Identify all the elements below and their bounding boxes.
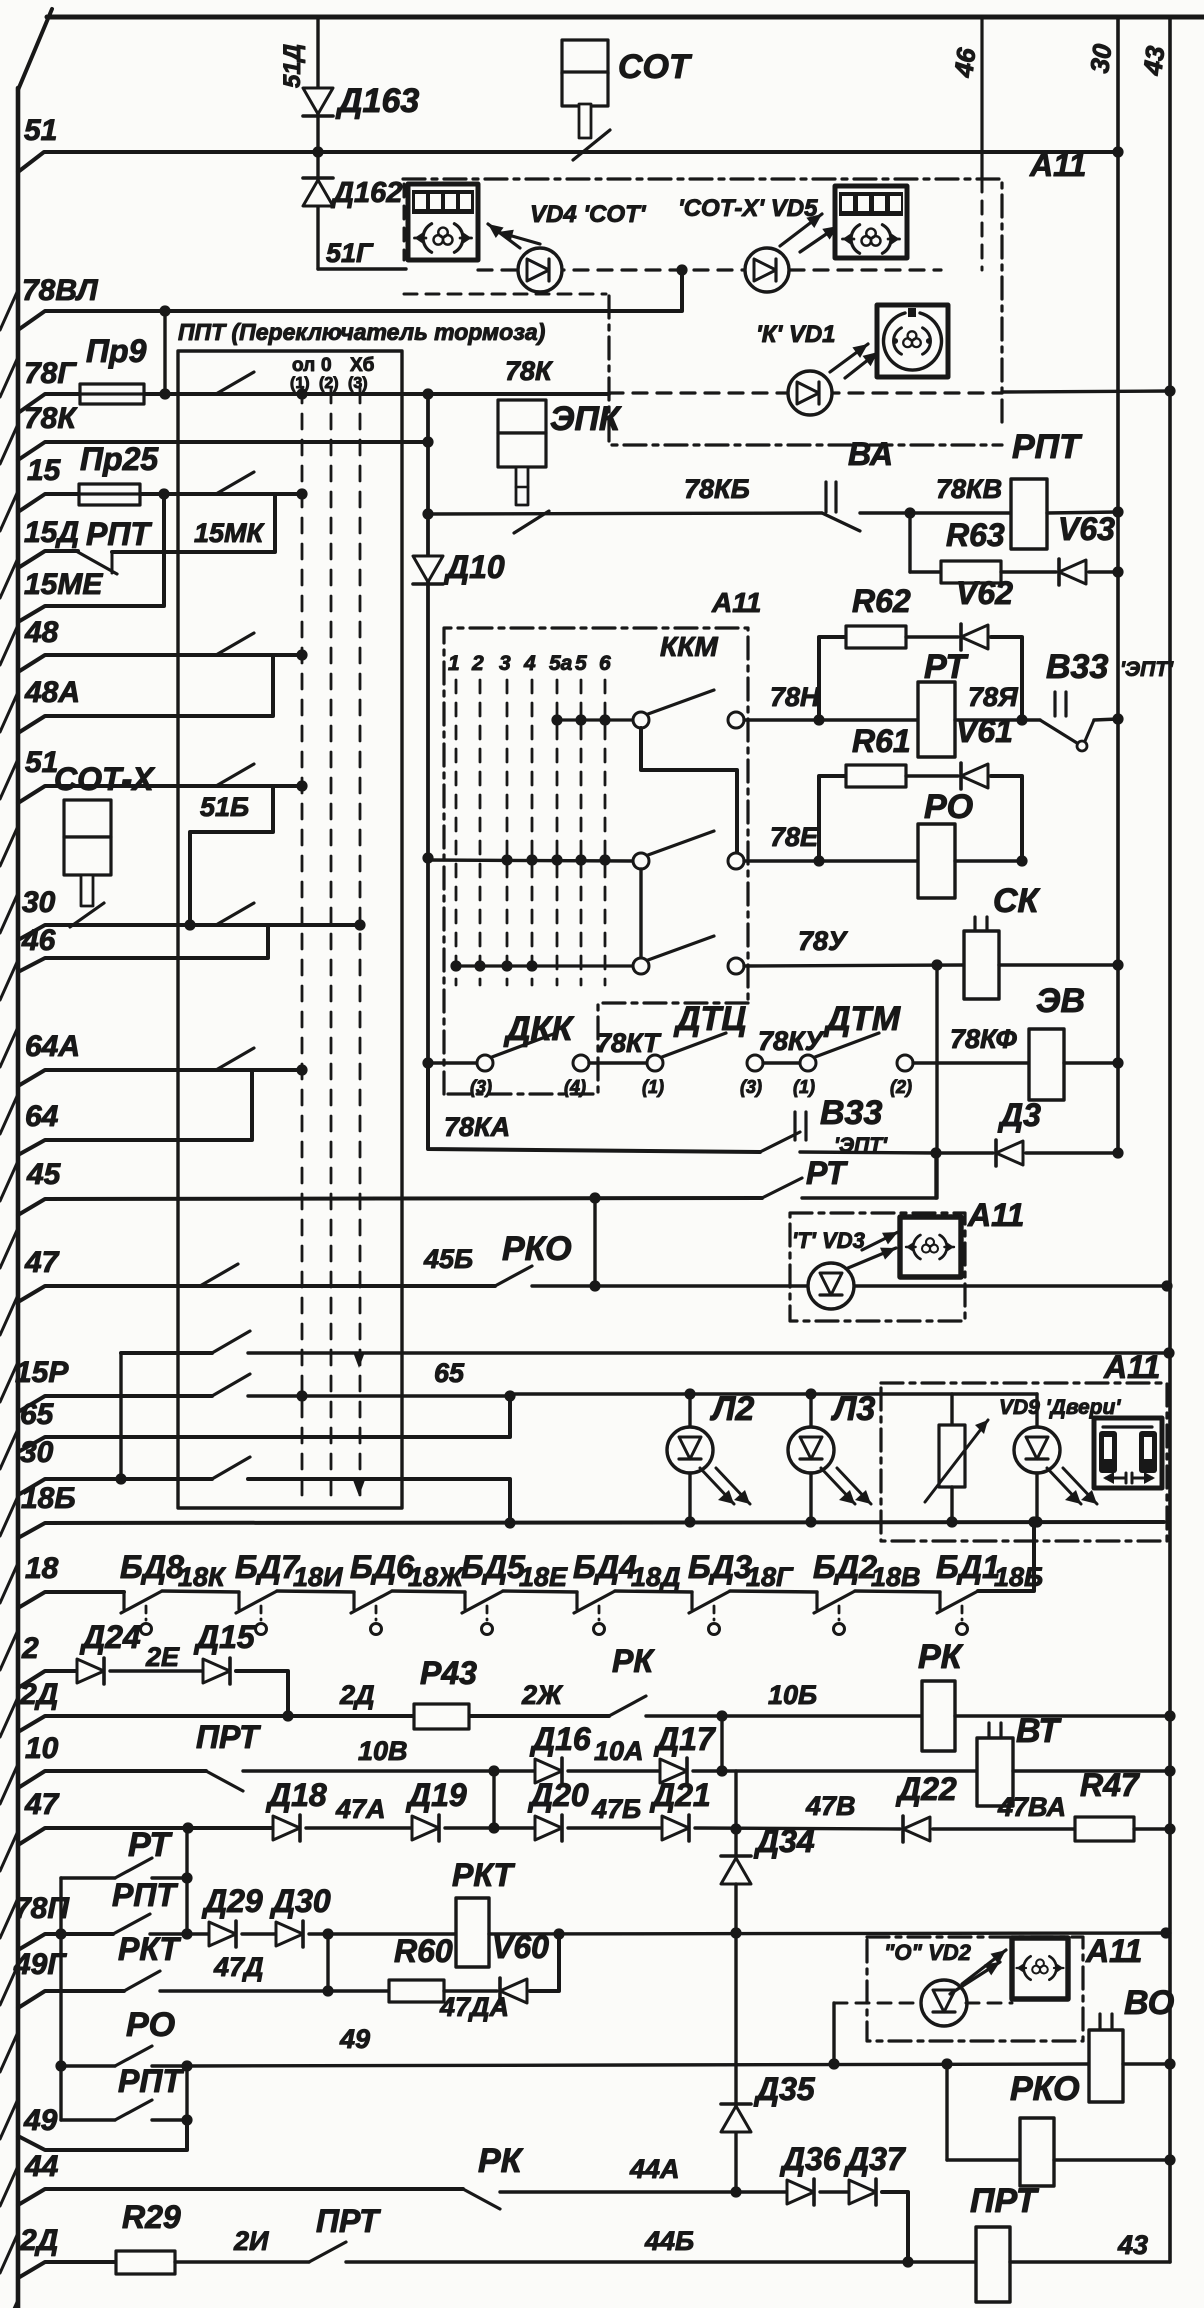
svg-text:Д21: Д21 <box>649 1777 711 1813</box>
svg-text:РПТ: РПТ <box>1012 428 1083 466</box>
door contact БД1 <box>938 1592 941 1609</box>
wire 49G <box>18 1991 124 2008</box>
relay coil EV <box>1029 1029 1064 1100</box>
svg-text:46: 46 <box>948 46 981 80</box>
svg-text:1: 1 <box>448 652 460 675</box>
svg-text:6: 6 <box>599 652 611 675</box>
bus 43 vertical <box>1168 17 1172 2262</box>
svg-text:46: 46 <box>21 924 56 957</box>
svg-text:10А: 10А <box>594 1736 644 1766</box>
contact DTM <box>800 1055 816 1071</box>
svg-text:ППТ (Переключатель тормоза): ППТ (Переключатель тормоза) <box>178 319 545 345</box>
svg-text:78ВЛ: 78ВЛ <box>22 274 99 307</box>
PPT contact 15 <box>216 472 254 494</box>
PPT contact 51 <box>216 764 254 786</box>
wire 78G / 78K lamp row <box>18 394 609 413</box>
svg-text:(1): (1) <box>290 375 310 392</box>
diode D18 <box>273 1816 300 1840</box>
svg-text:(3): (3) <box>740 1077 762 1097</box>
relay coil RO <box>918 824 955 898</box>
svg-text:Д37: Д37 <box>843 2141 907 2177</box>
svg-text:78К: 78К <box>505 356 554 386</box>
door contact БД8 <box>122 1592 125 1609</box>
wire row 15R-upper <box>121 1351 212 1355</box>
svg-text:15: 15 <box>27 454 62 487</box>
svg-text:47: 47 <box>24 1246 60 1279</box>
svg-text:(4): (4) <box>564 1077 586 1097</box>
svg-text:2Д: 2Д <box>19 1678 58 1711</box>
wire 15 <box>18 494 302 512</box>
svg-text:Д34: Д34 <box>753 1823 815 1859</box>
svg-text:'ЭПТ': 'ЭПТ' <box>1120 658 1174 681</box>
svg-text:47ВА: 47ВА <box>997 1792 1066 1822</box>
resistor R43 <box>414 1704 469 1729</box>
diode D162 <box>316 152 319 269</box>
PPT contact 48 <box>216 633 254 655</box>
column arrows <box>353 1352 365 1368</box>
wire 2 <box>18 1671 77 1688</box>
svg-text:Д15: Д15 <box>193 1619 256 1655</box>
svg-text:R62: R62 <box>852 583 911 619</box>
PPT command columns <box>301 388 304 1500</box>
wire 65 lamps rail <box>510 1392 1037 1395</box>
switch V33 EPT second <box>793 1112 796 1140</box>
svg-text:2Д: 2Д <box>19 2224 58 2257</box>
svg-text:44А: 44А <box>629 2154 680 2184</box>
wire 78U row feed <box>456 964 633 967</box>
svg-text:64: 64 <box>25 1100 59 1133</box>
lamp VD5 <box>745 248 789 292</box>
indicator box VD2 <box>1012 1938 1068 1999</box>
diode D20 <box>535 1816 562 1840</box>
svg-text:49Г: 49Г <box>13 1948 67 1981</box>
resistor R63 branch <box>908 513 911 572</box>
svg-text:R60: R60 <box>394 1933 453 1969</box>
wire 78VL <box>18 272 682 330</box>
PPT contact 15R <box>212 1374 250 1396</box>
wire 15D / RPT contact <box>18 551 78 568</box>
svg-text:44: 44 <box>24 2150 59 2183</box>
svg-text:Р43: Р43 <box>420 1655 477 1691</box>
svg-text:10Б: 10Б <box>768 1680 817 1710</box>
svg-text:78КВ: 78КВ <box>936 474 1002 504</box>
diode D24 <box>77 1659 104 1683</box>
svg-text:РТ: РТ <box>128 1826 173 1864</box>
svg-text:78П: 78П <box>14 1892 70 1925</box>
svg-text:78У: 78У <box>798 926 848 956</box>
svg-text:18Б: 18Б <box>21 1482 76 1515</box>
svg-text:78Г: 78Г <box>24 357 77 390</box>
svg-text:ДТМ: ДТМ <box>823 1000 901 1038</box>
lamp VD4 <box>518 248 562 292</box>
svg-text:45Б: 45Б <box>423 1244 473 1274</box>
wire 30 second <box>18 1479 212 1495</box>
box A11 KKM dash-dot <box>444 628 748 1094</box>
door contact БД2 <box>815 1592 818 1609</box>
svg-text:47ДА: 47ДА <box>439 1992 509 2022</box>
svg-text:18Е: 18Е <box>519 1562 568 1592</box>
svg-text:15Р: 15Р <box>15 1356 69 1389</box>
contact RK on 44 <box>463 2189 500 2209</box>
contact RO row <box>55 2060 66 2071</box>
door contact БД3 <box>690 1592 693 1609</box>
svg-text:ВА: ВА <box>848 436 893 472</box>
svg-text:'Т' VD3: 'Т' VD3 <box>792 1228 865 1253</box>
svg-text:Д20: Д20 <box>527 1777 589 1813</box>
svg-text:ККМ: ККМ <box>660 631 718 662</box>
svg-text:5: 5 <box>575 652 587 675</box>
svg-text:3: 3 <box>499 652 511 675</box>
svg-text:0: 0 <box>321 355 332 376</box>
svg-text:10: 10 <box>25 1732 59 1765</box>
wire 49 long <box>187 2064 1089 2066</box>
diode D36 <box>787 2180 814 2204</box>
svg-text:А11: А11 <box>1085 1933 1142 1969</box>
relay coil RT <box>918 682 955 757</box>
svg-text:(2): (2) <box>890 1077 912 1097</box>
left links <box>59 1878 62 2120</box>
svg-text:БД4: БД4 <box>573 1549 637 1585</box>
wire 18B <box>18 1522 1164 1538</box>
svg-text:Д19: Д19 <box>405 1777 467 1813</box>
switch VA <box>824 482 827 512</box>
svg-text:РКО: РКО <box>1010 2070 1080 2108</box>
svg-text:В33: В33 <box>1046 648 1108 686</box>
svg-text:43: 43 <box>1117 2230 1148 2260</box>
svg-text:Д30: Д30 <box>269 1883 331 1919</box>
svg-text:РТ: РТ <box>806 1155 848 1191</box>
svg-text:65: 65 <box>20 1398 55 1431</box>
svg-text:'СОТ-Х' VD5: 'СОТ-Х' VD5 <box>678 195 818 222</box>
diode D35 <box>721 2102 751 2106</box>
svg-text:2Д: 2Д <box>339 1680 375 1710</box>
link VD2 to 49 <box>832 2003 835 2064</box>
contact RK <box>609 1696 646 1716</box>
svg-text:РК: РК <box>918 1638 964 1676</box>
svg-text:78КФ: 78КФ <box>950 1024 1017 1054</box>
svg-text:Хб: Хб <box>350 355 374 376</box>
svg-text:VD4 'СОТ': VD4 'СОТ' <box>530 201 647 228</box>
svg-text:78К: 78К <box>24 402 78 435</box>
svg-text:(1): (1) <box>793 1077 815 1097</box>
svg-text:Д17: Д17 <box>653 1721 717 1757</box>
svg-text:Д162: Д162 <box>330 177 402 209</box>
svg-text:ПРТ: ПРТ <box>970 2182 1040 2220</box>
svg-text:18К: 18К <box>178 1562 227 1592</box>
svg-text:БД1: БД1 <box>936 1549 1000 1585</box>
wire columns feed <box>428 860 633 861</box>
frame left border <box>16 88 21 2308</box>
switch V33 EPT <box>1053 692 1056 716</box>
svg-text:Д29: Д29 <box>201 1883 263 1919</box>
svg-text:51Д: 51Д <box>279 44 306 88</box>
lamp L2 <box>688 1394 691 1427</box>
svg-text:ЭПК: ЭПК <box>550 400 622 438</box>
wire 45B link <box>593 1198 596 1286</box>
door contact БД4 <box>575 1592 578 1609</box>
box A11 VD2 <box>867 1937 1083 2041</box>
contact DKK row <box>428 1061 477 1064</box>
lamp VD9 <box>1035 1394 1038 1427</box>
svg-text:Д3: Д3 <box>997 1097 1041 1133</box>
wire 65 <box>18 1396 510 1452</box>
relay coil SK <box>973 917 976 932</box>
wire 51G to VD4 <box>318 267 406 270</box>
box A11 VD3 <box>790 1213 965 1321</box>
relay coil VT <box>987 1723 990 1738</box>
rheostat VD9 <box>950 1394 953 1425</box>
svg-text:47Б: 47Б <box>591 1794 641 1824</box>
svg-text:48: 48 <box>24 616 59 649</box>
svg-text:30: 30 <box>22 886 56 919</box>
svg-text:5а: 5а <box>549 652 573 675</box>
diode D22 <box>903 1817 930 1841</box>
lamp VD2 <box>834 2002 922 2005</box>
svg-text:Д10: Д10 <box>443 549 505 585</box>
relay coil RKT <box>456 1898 489 1967</box>
contact RPT on 78P <box>113 1914 150 1934</box>
svg-text:В33: В33 <box>820 1094 882 1132</box>
indicator box VD1 <box>877 305 948 377</box>
PPT contact 30 <box>216 903 254 925</box>
contact RKT on 49G <box>124 1971 160 1991</box>
PPT contact 30b <box>212 1457 250 1479</box>
svg-text:15МЕ: 15МЕ <box>24 568 103 601</box>
diode D10 <box>413 556 443 582</box>
wire 30 <box>18 925 360 940</box>
svg-text:ПРТ: ПРТ <box>316 2203 381 2239</box>
svg-text:Д36: Д36 <box>779 2141 841 2177</box>
svg-text:Пр9: Пр9 <box>86 333 147 369</box>
lamp wire VD4/VD5 dashed <box>478 268 941 271</box>
wire 18 <box>18 1592 124 1608</box>
link D30-R60 <box>326 1934 329 1991</box>
svg-text:78Н: 78Н <box>770 682 820 712</box>
diode D21 <box>662 1816 689 1840</box>
svg-text:Д22: Д22 <box>895 1771 957 1807</box>
PPT contact 64A <box>216 1048 254 1070</box>
svg-text:ВТ: ВТ <box>1016 1712 1062 1750</box>
svg-text:РТ: РТ <box>924 648 969 686</box>
PPT contact 78G <box>216 372 254 394</box>
diode V62 <box>961 625 988 649</box>
svg-text:'К' VD1: 'К' VD1 <box>756 321 836 348</box>
svg-text:СОТ-Х: СОТ-Х <box>54 761 155 797</box>
svg-text:47А: 47А <box>335 1794 386 1824</box>
svg-text:78Е: 78Е <box>770 822 819 852</box>
wire 44 <box>18 2189 463 2205</box>
lamp VD1 <box>788 371 832 415</box>
KKM link 1 <box>641 728 737 853</box>
contact DTC <box>647 1055 663 1071</box>
PPT contact 47 <box>200 1264 238 1286</box>
svg-text:СК: СК <box>993 882 1041 920</box>
wire 49 <box>18 2120 187 2150</box>
svg-text:R29: R29 <box>122 2199 181 2235</box>
svg-text:СОТ: СОТ <box>618 48 693 86</box>
KKM link 2 <box>639 869 642 958</box>
svg-text:78КТ: 78КТ <box>596 1028 662 1058</box>
diode D34 vertical <box>734 1771 737 1856</box>
svg-text:Д24: Д24 <box>79 1619 141 1655</box>
wire 51 <box>18 152 1118 172</box>
svg-text:Пр25: Пр25 <box>80 441 159 477</box>
svg-text:30: 30 <box>1084 42 1117 75</box>
svg-text:2: 2 <box>21 1632 39 1665</box>
svg-text:V61: V61 <box>956 713 1013 749</box>
wire 15R <box>18 1396 212 1412</box>
svg-text:РПТ: РПТ <box>112 1877 178 1913</box>
lamp VD3 <box>808 1263 854 1309</box>
svg-text:18И: 18И <box>293 1562 343 1592</box>
svg-text:2: 2 <box>471 652 484 675</box>
contact RPT second row <box>61 2118 115 2121</box>
svg-text:Д163: Д163 <box>335 82 419 120</box>
svg-text:78Я: 78Я <box>968 682 1019 712</box>
diode D163 <box>316 17 319 152</box>
svg-text:2Е: 2Е <box>145 1642 180 1672</box>
svg-text:78КБ: 78КБ <box>684 474 750 504</box>
svg-text:51Г: 51Г <box>326 238 374 268</box>
indicator box VD3 <box>900 1217 961 1277</box>
svg-text:47Д: 47Д <box>213 1952 264 1982</box>
svg-text:51: 51 <box>24 114 57 147</box>
wire 18B up link <box>978 1522 1034 1591</box>
wire 46 <box>18 925 268 972</box>
svg-text:А11: А11 <box>711 587 761 618</box>
frame top border <box>47 15 1204 20</box>
svg-text:ДТЦ: ДТЦ <box>673 1000 746 1038</box>
svg-text:РК: РК <box>612 1643 655 1679</box>
wire 51 second <box>18 786 302 803</box>
wire 78N <box>744 718 918 721</box>
svg-text:18В: 18В <box>871 1562 921 1592</box>
svg-text:А11: А11 <box>1103 1349 1160 1385</box>
svg-text:(3): (3) <box>470 1077 492 1097</box>
resistor R29 <box>116 2251 175 2274</box>
frame hatching <box>0 290 18 330</box>
wire 64A <box>18 1070 302 1086</box>
wire 78U <box>744 965 964 966</box>
svg-text:47: 47 <box>24 1788 60 1821</box>
pressure switch COT <box>562 40 608 74</box>
link RKO <box>945 2064 948 2160</box>
svg-text:15Д: 15Д <box>24 516 79 549</box>
KKM contact 2 (78E) <box>633 853 649 869</box>
diode D19 <box>412 1816 439 1840</box>
svg-text:V60: V60 <box>492 1929 549 1965</box>
svg-text:15МК: 15МК <box>194 518 266 548</box>
relay coil RK <box>922 1681 955 1751</box>
relay coil RKO <box>1020 2118 1054 2186</box>
fuse Pr9 <box>80 384 144 404</box>
relay coil VO <box>1098 2014 1101 2029</box>
svg-text:БД6: БД6 <box>350 1549 414 1585</box>
svg-text:(2): (2) <box>319 375 339 392</box>
svg-text:18: 18 <box>25 1552 59 1585</box>
wire 78K <box>18 442 428 460</box>
box A11 doors <box>881 1383 1167 1541</box>
valve EPK <box>498 400 546 433</box>
svg-text:R63: R63 <box>946 517 1005 553</box>
svg-text:48А: 48А <box>24 676 80 709</box>
box A11 top dash-dot <box>403 179 1002 426</box>
svg-text:БД5: БД5 <box>461 1549 526 1585</box>
wire 47 lower <box>18 1828 273 1845</box>
diode V63 <box>1059 560 1086 584</box>
wire 48A <box>18 655 273 733</box>
svg-text:ДКК: ДКК <box>503 1010 574 1048</box>
wire vertical 428 <box>426 394 430 1068</box>
relay coil PRT <box>976 2227 1010 2302</box>
svg-text:47В: 47В <box>805 1791 856 1821</box>
KKM contact 1 (78N) <box>633 712 649 728</box>
svg-text:(1): (1) <box>642 1077 664 1097</box>
svg-text:78КУ: 78КУ <box>758 1026 825 1056</box>
wire 78E <box>744 859 918 862</box>
bus 30 vertical <box>1116 17 1120 1153</box>
svg-text:49: 49 <box>23 2104 58 2137</box>
svg-text:РКТ: РКТ <box>452 1857 515 1893</box>
svg-text:А11: А11 <box>967 1197 1024 1233</box>
svg-text:64А: 64А <box>25 1030 80 1063</box>
wire 2D bottom <box>18 2262 116 2278</box>
svg-text:18Д: 18Д <box>631 1562 681 1592</box>
svg-text:44Б: 44Б <box>644 2226 694 2256</box>
link 78U to RT <box>935 965 938 1198</box>
wire 51B <box>190 786 273 925</box>
diode D29 <box>209 1922 236 1946</box>
indicator box doors <box>1094 1418 1162 1488</box>
svg-text:51Б: 51Б <box>200 792 249 822</box>
bus 46 vertical <box>980 17 983 179</box>
resistor R47 <box>1075 1817 1134 1841</box>
diode D17 <box>660 1759 687 1783</box>
wire 47 <box>18 1286 495 1302</box>
wire 2D <box>18 1716 609 1732</box>
svg-text:V62: V62 <box>956 575 1013 611</box>
resistor R60 <box>389 1980 444 2002</box>
KKM contact 3 (78U) <box>633 958 649 974</box>
svg-text:2И: 2И <box>233 2226 269 2256</box>
diode D16 <box>494 1769 535 1772</box>
contact RKO <box>495 1266 532 1286</box>
link 10B <box>720 1716 723 1771</box>
wire 15ME <box>18 494 164 622</box>
svg-text:18Ж: 18Ж <box>408 1562 465 1592</box>
link 30 to upper row <box>119 1353 122 1479</box>
door contact БД5 <box>463 1592 466 1609</box>
svg-text:43: 43 <box>1137 44 1170 78</box>
svg-text:10В: 10В <box>358 1736 408 1766</box>
resistor R61 branch <box>819 776 846 861</box>
svg-text:R61: R61 <box>852 723 911 759</box>
svg-text:РКО: РКО <box>502 1230 572 1268</box>
svg-text:30: 30 <box>20 1436 54 1469</box>
svg-text:БД3: БД3 <box>688 1549 752 1585</box>
svg-text:Л2: Л2 <box>709 1390 754 1428</box>
wire 78VL-78G link <box>163 311 166 394</box>
contact PRT bottom <box>309 2242 346 2262</box>
wire 78KB <box>428 513 822 514</box>
svg-text:R47: R47 <box>1080 1767 1141 1803</box>
svg-text:ол: ол <box>292 355 315 376</box>
link 10-47 <box>492 1771 495 1828</box>
diode D37 <box>820 2190 849 2193</box>
lamp L3 <box>809 1394 812 1427</box>
door contact БД6 <box>352 1592 355 1609</box>
contact RT on 45 <box>762 1178 802 1198</box>
